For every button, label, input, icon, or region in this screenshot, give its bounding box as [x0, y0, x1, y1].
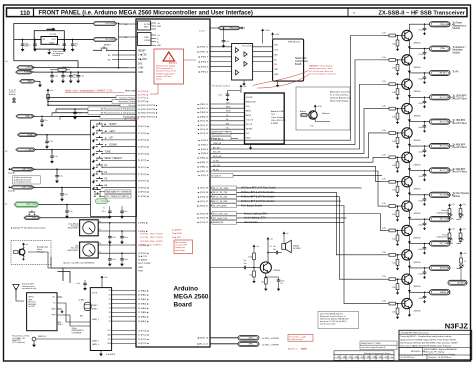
svg-text:PGM: PGM — [138, 271, 143, 273]
svg-text:16v: 16v — [244, 260, 247, 262]
pin label serial left — [138, 259, 148, 262]
display module Nokia 5110 — [273, 39, 304, 81]
svg-text:61 (PF5) ◀: 61 (PF5) ◀ — [138, 93, 148, 96]
svg-text:▶ (PH3) 6: ▶ (PH3) 6 — [199, 139, 209, 142]
connector J10 KEY_OUT green — [14, 202, 39, 207]
pin label left 39 (PG2) — [138, 186, 149, 189]
wire spk plus — [210, 337, 238, 339]
pin label right drv (PB7) 13 — [198, 170, 209, 173]
transistor Q5 2N3904 — [402, 103, 422, 117]
svg-text:Drawn by N3FJZ ~ Compiled from: Drawn by N3FJZ ~ Compiled from and based… — [401, 335, 453, 338]
display module TFT Adafruit 1480 — [245, 93, 285, 144]
pin label PC port — [138, 334, 149, 337]
transistor Q14 alt circuit — [300, 105, 330, 128]
wire spk minus — [210, 343, 238, 345]
svg-text:+VIN: +VIN — [138, 68, 144, 70]
svg-text:Vcc of 3.3v max. Must use: Vcc of 3.3v max. Must use — [309, 70, 334, 73]
svg-text:(see also Layout Decode 4): (see also Layout Decode 4) — [361, 346, 385, 349]
pushbutton SW RIGHT — [92, 122, 136, 129]
svg-text:+3.3v: +3.3v — [264, 30, 270, 32]
project title text — [353, 10, 466, 16]
wire driver feed — [210, 165, 383, 182]
power +3.3v nokia — [271, 32, 279, 39]
pin label left 32 (PC5) — [138, 139, 149, 142]
pin label SPK 19 — [197, 336, 208, 339]
net flag GPS-LCD CABLE — [218, 26, 245, 30]
svg-text:ENCODER 1: ENCODER 1 — [68, 228, 79, 230]
svg-text:2.2k: 2.2k — [382, 301, 386, 303]
svg-text:2N3904: 2N3904 — [414, 189, 422, 191]
svg-text:+5v: +5v — [157, 23, 160, 25]
leader red warning left — [150, 84, 158, 94]
pin label RESET — [138, 50, 146, 52]
svg-text:Arduino: Arduino — [174, 286, 199, 293]
capacitor C7d 0.01u — [418, 145, 426, 157]
svg-text:INT_LIGHT_LED: INT_LIGHT_LED — [213, 218, 228, 220]
wire driver feed — [210, 133, 383, 158]
svg-text:18 (PC2) ◀: 18 (PC2) ◀ — [138, 338, 149, 341]
connector J5 GND — [20, 80, 35, 84]
svg-text:KEY_EN: KEY_EN — [213, 165, 221, 167]
power +5v collector — [267, 237, 273, 253]
net label box led 0 — [210, 212, 268, 216]
svg-text:Module: Module — [453, 52, 461, 54]
svg-text:0.1u: 0.1u — [49, 141, 53, 143]
wire driver feed — [210, 109, 383, 154]
capacitor C14 0.1u — [65, 204, 73, 219]
pin label GND — [138, 72, 143, 74]
svg-text:▶ (PG0) 41: ▶ (PG0) 41 — [197, 204, 208, 207]
pin label serial left — [138, 267, 143, 269]
wire GPS GND stub — [57, 309, 64, 313]
svg-text:100k: 100k — [248, 257, 252, 259]
svg-text:▶ (PB4) 10: ▶ (PB4) 10 — [198, 157, 209, 160]
pin label right drv (PH6) 9 — [199, 152, 209, 155]
transistor Q13 audio 2N3904 — [260, 262, 281, 273]
capacitor C10 0.1u — [45, 134, 53, 149]
transistor Q9 2N3904 — [402, 201, 422, 215]
ground emitter Q12 — [408, 284, 411, 293]
pushbutton SW MENU / SELECT — [92, 156, 136, 163]
pin label right tft (PB1) 52 — [198, 103, 209, 106]
power switch S1 — [93, 45, 112, 51]
svg-text:50 ◀ MISO: 50 ◀ MISO — [172, 229, 182, 232]
capacitor C2d 0.01u — [418, 23, 426, 35]
ground emitter Q8 — [408, 186, 411, 195]
connector out ALIGN_EN — [430, 265, 451, 270]
svg-text:!: ! — [169, 57, 170, 61]
svg-text:MEGA 2560: MEGA 2560 — [174, 294, 209, 301]
svg-text:+12v: +12v — [462, 228, 466, 230]
svg-text:Mouser #xxx-REC1 (w/ DETENTS): Mouser #xxx-REC1 (w/ DETENTS) — [64, 262, 95, 264]
svg-text:MF-80 SSL-II 7" DWG: MF-80 SSL-II 7" DWG — [361, 343, 381, 345]
wire arduino to tft — [210, 119, 245, 121]
wire shifter to nokia — [253, 56, 273, 58]
IC USB interface on board — [138, 33, 162, 48]
pin label left 40 (PG1) — [138, 191, 149, 194]
svg-text:MUTE_EN: MUTE_EN — [213, 156, 222, 158]
svg-text:17 (PC1) ◀: 17 (PC1) ◀ — [138, 334, 149, 337]
wire arduino to shifter — [210, 71, 232, 73]
connector J2 +5V SUPPLY — [93, 37, 118, 41]
svg-text:8Ω SPKR: 8Ω SPKR — [293, 248, 301, 250]
svg-text:◀ (SPK) 19: ◀ (SPK) 19 — [197, 336, 208, 339]
svg-text:29 (PA7) ◀: 29 (PA7) ◀ — [138, 320, 149, 323]
wire counter data pin — [109, 308, 136, 310]
warning red nokia text — [309, 65, 336, 76]
wire +12V BATT to +VIN — [34, 67, 136, 69]
IC 5V regulator on board — [138, 21, 162, 30]
pin label left 38 (PD7) — [138, 180, 149, 183]
svg-text:100u: 100u — [281, 281, 285, 283]
capacitor C16 0.1u keypad — [120, 206, 127, 219]
svg-text:67 (PK5) /PCINT21 ◀: 67 (PK5) /PCINT21 ◀ — [138, 115, 158, 118]
ground emitter Q6 — [408, 138, 411, 147]
capacitor C11 0.1u — [50, 149, 58, 164]
svg-text:7805: 7805 — [49, 42, 55, 44]
svg-text:mounted on set): mounted on set) — [22, 287, 37, 290]
svg-text:0.1u: 0.1u — [69, 211, 73, 213]
pin label right tft (PL6) 43 — [198, 132, 209, 135]
svg-text:19 (PD2) ◀: 19 (PD2) ◀ — [138, 252, 149, 255]
svg-text:PC/DTR1 - PH6 - PORTH: PC/DTR1 - PH6 - PORTH — [140, 241, 163, 243]
svg-text:0.01u: 0.01u — [418, 249, 423, 251]
svg-text:0.01u: 0.01u — [418, 225, 423, 227]
svg-text:RF_LP_FIL_20M: RF_LP_FIL_20M — [213, 201, 228, 203]
svg-text:To 160M BPF: To 160M BPF — [453, 96, 468, 98]
resistor R12c pulldown — [392, 278, 399, 294]
svg-text:5V PWR: 5V PWR — [144, 24, 152, 26]
svg-text:RF_LP_FIL_160M: RF_LP_FIL_160M — [213, 188, 229, 190]
connector J4 POWER ON — [16, 70, 35, 74]
pin label tft BACKLITE — [246, 100, 256, 103]
svg-text:16/17 PC/MX: 16/17 PC/MX — [138, 263, 151, 265]
ground emitter Q3 — [408, 65, 411, 74]
svg-text:MOSI: MOSI — [226, 111, 231, 113]
pin label PA port — [138, 298, 149, 301]
svg-text:16 MHz: 16 MHz — [79, 300, 85, 302]
capacitor C3 0.1u — [56, 39, 66, 52]
svg-text:+5v: +5v — [157, 35, 160, 37]
svg-text:▶ (PE5) 3: ▶ (PE5) 3 — [199, 60, 209, 63]
svg-text:EXT_PA_TX: EXT_PA_TX — [211, 175, 222, 178]
GPS receiver module GPS1 — [27, 293, 57, 331]
svg-text:▶ (PL0) 49: ▶ (PL0) 49 — [198, 120, 209, 123]
pin label PA port — [138, 320, 149, 323]
connector out INT_LIGHT_EN — [430, 241, 454, 246]
capacitor C12 0.1u — [55, 168, 63, 183]
svg-text:10k: 10k — [392, 141, 395, 143]
svg-text:10k: 10k — [392, 263, 395, 265]
svg-text:▶ (PH1) 16: ▶ (PH1) 16 — [198, 51, 209, 54]
svg-text:5110 supported in: 5110 supported in — [156, 67, 173, 70]
svg-text:XTAL1: XTAL1 — [92, 304, 98, 307]
title block revision — [401, 355, 452, 360]
svg-text:ENCODER 2: ENCODER 2 — [68, 250, 79, 252]
connector J6 TUNE_GND — [18, 133, 39, 137]
net label box 8b Freq Transverter & Temperature — [88, 111, 136, 115]
note GPS antenna text — [22, 283, 37, 290]
svg-text:38 (PD7) ◀: 38 (PD7) ◀ — [138, 180, 149, 183]
svg-text:0.1u: 0.1u — [59, 176, 63, 178]
resistor R10c pulldown — [392, 230, 399, 246]
svg-text:XTAL2: XTAL2 — [92, 308, 98, 311]
svg-text:36 (PC1) ◀: 36 (PC1) ◀ — [138, 166, 149, 169]
wire TIME_GND to bus — [34, 115, 100, 117]
wire TUNE_GND — [37, 134, 91, 136]
pushbutton PTT/TUNE FOOT SW — [94, 192, 131, 198]
svg-text:USB: USB — [144, 37, 149, 39]
resistor R5c pulldown — [392, 108, 399, 124]
net label RX/TX2 — [80, 316, 83, 318]
pushbutton SW LEFT — [92, 129, 136, 136]
wire collector Q12 — [409, 268, 429, 275]
svg-text:▼: ▼ — [105, 143, 108, 146]
svg-text:LINK 2: LINK 2 — [57, 324, 63, 326]
net label LCD_bk_CL — [210, 137, 238, 141]
wire counter feed upper — [58, 267, 133, 269]
ground emitter Q13 — [408, 308, 411, 317]
svg-text:PORTJ - PJ6 - PCINT15: PORTJ - PJ6 - PCINT15 — [140, 245, 162, 247]
wire L_LIMITS — [36, 149, 91, 151]
net label box led 2 — [210, 220, 259, 224]
svg-text:PC/CTS1 - PH5 - PORTH: PC/CTS1 - PH5 - PORTH — [140, 237, 163, 239]
wire counter data pin — [109, 299, 136, 301]
resistor R7a 2.2k — [382, 154, 405, 158]
wire collector Q7 — [409, 146, 429, 153]
LED D3 D4 interior lighting — [436, 228, 466, 244]
svg-text:▶ (PH5) 8: ▶ (PH5) 8 — [199, 148, 209, 151]
pin label PC port — [138, 342, 149, 345]
svg-text:100: 100 — [261, 281, 264, 283]
warning note display firmware — [154, 49, 184, 84]
svg-text:above: above — [156, 79, 163, 81]
pin label red left — [140, 234, 163, 236]
svg-text:Connect / Power: Connect / Power — [119, 96, 135, 99]
pin label right fil (PL7) 42 — [198, 200, 209, 203]
svg-text:2N3904: 2N3904 — [414, 262, 422, 264]
warning note ICSP red box — [174, 240, 193, 254]
svg-text:240 x 320 LCD: 240 x 320 LCD — [271, 120, 286, 122]
svg-text:(TTL interface): (TTL interface) — [12, 341, 25, 344]
svg-text:AUDIO_O_: AUDIO_O_ — [288, 348, 299, 351]
pin label encoder 2 (PE4) — [138, 222, 148, 225]
svg-text:OUT: OUT — [51, 39, 56, 41]
svg-text:~: ~ — [353, 10, 356, 15]
svg-text:SPK+: SPK+ — [249, 337, 255, 339]
svg-text:2.2k: 2.2k — [382, 57, 386, 59]
svg-text:10k: 10k — [392, 92, 395, 94]
svg-text:To 75M BPF: To 75M BPF — [453, 120, 466, 122]
svg-text:module power pins, and a: module power pins, and a — [309, 67, 334, 70]
pin label left 30 (PC7) — [138, 125, 149, 128]
svg-text:EXT_LIGHT_LED: EXT_LIGHT_LED — [213, 213, 228, 215]
svg-text:FRONT PANEL (i.e. Arduino MEG: FRONT PANEL (i.e. Arduino MEGA 2560 Micr… — [39, 11, 253, 17]
LED D5 align — [459, 252, 466, 282]
pin label right drv (PH4) 7 — [199, 143, 209, 146]
svg-text:0.1u: 0.1u — [44, 120, 48, 122]
svg-text:heatsink: heatsink — [53, 54, 60, 57]
svg-text:(see note): (see note) — [125, 89, 137, 93]
wire counter ctrl pin — [107, 335, 136, 337]
svg-text:2N3904: 2N3904 — [414, 237, 422, 239]
pin label nokia LED — [274, 45, 278, 47]
pin label nokia DIN — [274, 54, 278, 56]
wire collector Q3 — [409, 49, 429, 56]
display text tft — [271, 110, 286, 125]
svg-text:PWR 3E (3.3v): PWR 3E (3.3v) — [288, 41, 300, 43]
capacitor C4 47u 6v — [71, 39, 79, 52]
wire ENC2 A — [98, 242, 136, 245]
svg-text:and LP Filters: and LP Filters — [453, 146, 468, 149]
resistor R16 10k bias lower — [249, 268, 255, 284]
pin label right tft (PB3) 50 — [198, 111, 209, 114]
leader red curve — [253, 71, 310, 89]
svg-text:2N3904: 2N3904 — [414, 140, 422, 142]
wire counter data pin — [109, 290, 136, 292]
svg-text:To PA: To PA — [453, 70, 459, 73]
svg-text:BL: BL — [226, 132, 228, 134]
svg-text:ALARM_EN: ALARM_EN — [213, 221, 224, 224]
pin label left 41 (PG0) — [138, 195, 149, 198]
net label PTT/TUNE green — [96, 199, 111, 204]
svg-text:10k: 10k — [392, 116, 395, 118]
svg-text:RST_OUT: RST_OUT — [213, 133, 223, 135]
pin label right drv (PB6) 12 — [198, 165, 209, 168]
resistor R11a 2.2k — [382, 252, 405, 256]
svg-text:▶ (PH4) 7: ▶ (PH4) 7 — [199, 143, 209, 146]
note red ttl safe — [124, 118, 140, 121]
svg-text:& temperature sense: & temperature sense — [14, 181, 31, 184]
pin label left 33 (PC4) — [138, 145, 149, 148]
transistor Q15 noise — [14, 243, 29, 261]
note GPS power text — [12, 336, 30, 345]
svg-text:EXT_LIGHT_EN: EXT_LIGHT_EN — [440, 219, 455, 221]
pin label right led (PD7) 38 — [198, 217, 209, 220]
connector out RF_LP_FIL_40M — [430, 143, 455, 148]
resistor R8c pulldown — [392, 181, 399, 197]
svg-text:+5v: +5v — [256, 246, 259, 248]
svg-text:To Power: To Power — [453, 23, 463, 25]
svg-text:Management: Management — [453, 24, 467, 27]
wire arduino to tft — [210, 123, 245, 125]
svg-text:0.01u: 0.01u — [111, 237, 115, 239]
svg-text:▶ (PL5) 44: ▶ (PL5) 44 — [198, 196, 209, 199]
svg-text:PWR: PWR — [138, 267, 143, 269]
note PTT text — [11, 227, 46, 230]
wire KEY_OUT — [39, 204, 91, 206]
wire Vcc into board — [124, 24, 137, 39]
svg-text:▶ (PG2) 39: ▶ (PG2) 39 — [197, 212, 208, 215]
pin label nokia GND — [274, 74, 279, 76]
pin label right tft (PL4) 45 — [198, 128, 209, 131]
svg-text:L_LIMITS: L_LIMITS — [26, 149, 35, 151]
resistor R3c pulldown — [392, 59, 399, 75]
svg-text:Monochrome display: Monochrome display — [156, 65, 176, 68]
net label box Connect / Power — [116, 96, 136, 100]
svg-text:WARNING: check display: WARNING: check display — [309, 65, 334, 68]
resistor R9c pulldown — [392, 205, 399, 221]
net label box 8b Freq Transverter & Temperature — [88, 107, 136, 111]
wire arduino to tft — [210, 128, 245, 130]
pin label serial left — [138, 263, 151, 265]
svg-text:41 (PG0) ◀: 41 (PG0) ◀ — [138, 195, 149, 198]
transistor Q7 2N3904 — [402, 152, 422, 166]
svg-text:DIN: DIN — [274, 54, 278, 56]
connector ALIGN LED — [448, 280, 468, 285]
connector out RF_LP_FIL_160M — [430, 95, 456, 100]
net label box filter 0 — [210, 186, 277, 190]
svg-text:0.01u: 0.01u — [418, 200, 423, 202]
svg-text:GND: GND — [27, 81, 32, 83]
svg-text:37 (PC0) ◀: 37 (PC0) ◀ — [138, 173, 149, 176]
svg-text:22 (PA0) ◀: 22 (PA0) ◀ — [138, 289, 149, 292]
pin label tft GND — [246, 137, 251, 139]
transistor Q11 2N3904 — [402, 250, 422, 264]
capacitor ENC2 B 0.01u — [120, 252, 128, 266]
svg-text:C-Lock: C-Lock — [128, 105, 136, 107]
svg-text:GND: GND — [51, 309, 56, 311]
ground emitter Q10 — [408, 235, 411, 244]
capacitor C9d 0.01u — [418, 194, 426, 206]
note counter name — [72, 327, 85, 334]
svg-text:To SPK– of SPKR: To SPK– of SPKR — [262, 344, 279, 346]
wire filter 75M feed — [237, 192, 384, 255]
svg-text:10k: 10k — [392, 287, 395, 289]
wire EXT_PA_TX row — [233, 174, 382, 176]
wire shifter to nokia — [253, 51, 273, 53]
pin label encoder 3 (PE5) — [138, 230, 148, 233]
svg-text:GND: GND — [246, 137, 251, 139]
pin label right drv (PB5) 11 — [198, 161, 209, 164]
svg-text:firmware version 2.05.: firmware version 2.05. — [156, 70, 177, 73]
pin label left 62 (PF6) — [138, 96, 148, 99]
pin label left 31 (PC6) — [138, 132, 149, 135]
resistor R17 emitter 100 — [261, 273, 268, 291]
pin label serial left — [138, 255, 148, 258]
svg-text:INT_LIGHT_EN: INT_LIGHT_EN — [440, 243, 454, 245]
svg-text:PTT_IN: PTT_IN — [32, 217, 39, 219]
svg-text:5v to 3.3v interface: 5v to 3.3v interface — [330, 94, 349, 97]
transistor Q12 2N3904 — [402, 274, 422, 288]
svg-text:110: 110 — [20, 10, 31, 17]
wire driver feed — [210, 60, 383, 145]
svg-text:Modulator: Modulator — [453, 49, 464, 52]
wire shifter to nokia — [253, 71, 273, 73]
capacitor C15 0.1u keypad — [102, 206, 112, 219]
level shifter U4 5V-3.3V — [232, 44, 253, 81]
pin label left 36 (PC1) — [138, 166, 149, 169]
svg-text:TX_EN: TX_EN — [213, 161, 219, 163]
wire counter data pin — [109, 303, 136, 305]
svg-text:2.2k: 2.2k — [382, 203, 386, 205]
svg-text:AGC_EN: AGC_EN — [213, 151, 221, 154]
note box layout ref — [360, 345, 397, 349]
pin label right (PH0) 17 — [198, 46, 209, 49]
svg-text:23 (PA1) ◀: 23 (PA1) ◀ — [138, 294, 149, 297]
capacitor C5d 0.01u — [418, 97, 426, 109]
pin label left 63 (PF7) — [138, 100, 148, 103]
svg-text:MISO: MISO — [246, 110, 252, 112]
svg-text:SCL: SCL — [108, 339, 111, 341]
capacitor C22 10u speaker — [268, 246, 282, 254]
note box alternative circuit — [296, 87, 351, 130]
wire ENC2 B — [98, 251, 136, 253]
capacitor C11d 0.01u — [418, 243, 426, 255]
svg-text:64 (PK2) /PCINT18 ◀: 64 (PK2) /PCINT18 ◀ — [138, 104, 158, 107]
pin label left 66 (PK4) /PCINT20 — [138, 112, 158, 115]
wire GPS PPS — [57, 315, 90, 326]
